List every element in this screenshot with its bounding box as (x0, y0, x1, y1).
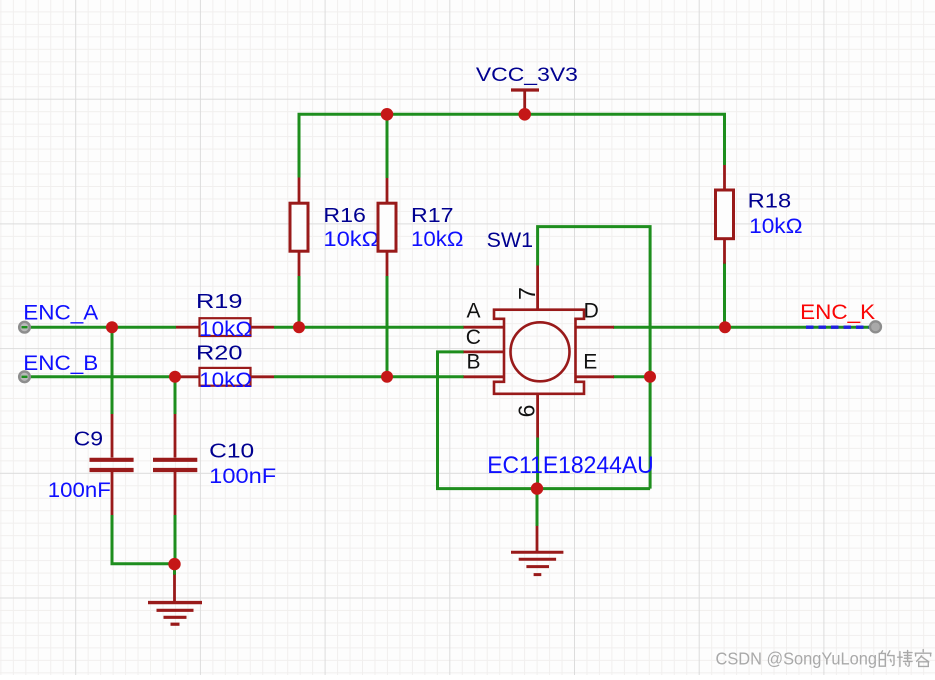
junction at R17 top (381, 108, 394, 121)
pin name E (583, 351, 597, 374)
switch SW1 rotary encoder body (494, 310, 584, 394)
port pin circle ENC_A (19, 322, 30, 333)
label R16 designator (323, 205, 366, 227)
svg-text:R18: R18 (748, 191, 792, 213)
port pin circle ENC_K (870, 321, 881, 332)
resistor R17 (378, 178, 396, 276)
label C10 designator (209, 441, 254, 463)
watermark CSDN (716, 649, 932, 669)
port pin circle ENC_B (19, 372, 30, 383)
wire bottom loop to pin C (438, 352, 651, 489)
wire ENC_K selection blue dashes (806, 326, 869, 329)
svg-text:10kΩ: 10kΩ (411, 228, 464, 251)
net label VCC_3V3 (476, 65, 578, 86)
SW1 pin D (576, 326, 615, 329)
ground GND2 under SW1 (511, 526, 563, 575)
svg-text:10kΩ: 10kΩ (749, 215, 803, 238)
wire pin D to ENC_K junction (613, 326, 725, 329)
wire R16 bottom leg (298, 276, 301, 327)
svg-text:C10: C10 (209, 441, 254, 463)
label C9 designator (74, 429, 104, 451)
svg-text:10kΩ: 10kΩ (199, 369, 252, 392)
svg-text:ENC_B: ENC_B (23, 352, 98, 375)
capacitor C10 (153, 414, 197, 515)
wire ENC_B left segment (28, 375, 176, 378)
SW1 pin 7 (top) (536, 266, 539, 310)
svg-text:7: 7 (514, 287, 540, 300)
label SW1 value EC11E18244AU (487, 452, 654, 479)
pin name B (467, 351, 481, 374)
SW1 pin B (464, 375, 505, 378)
label R20 designator (196, 342, 243, 364)
wire R17 bottom leg (386, 276, 389, 377)
wire pin 6 bottom leg (536, 438, 539, 489)
svg-text:SW1: SW1 (487, 229, 533, 252)
label R19 value 10kΩ (199, 318, 252, 341)
junction ENC_B / C10 (169, 371, 181, 383)
wire R18 bottom leg (723, 263, 726, 328)
wire top bus VCC from R16 top corner to R18 top corner (299, 114, 725, 177)
wire ground GND1 stub (173, 564, 176, 575)
svg-text:R17: R17 (411, 205, 454, 227)
svg-text:10kΩ: 10kΩ (199, 318, 252, 341)
capacitor C9 (90, 414, 134, 515)
net label ENC_K (highlighted red) (800, 301, 875, 324)
svg-text:C9: C9 (74, 429, 104, 451)
svg-text:100nF: 100nF (48, 479, 111, 502)
junction pin6 / bottom loop (531, 482, 543, 494)
wire C10 bottom leg (174, 515, 177, 564)
wire ENC_K right segment (725, 326, 870, 329)
label C10 value 100nF (209, 465, 276, 488)
svg-text:R20: R20 (196, 342, 243, 364)
pin number 6 (514, 405, 540, 418)
wire C9 bottom leg to ground node (112, 515, 175, 564)
svg-text:R19: R19 (196, 291, 243, 313)
SW1 pin C (464, 350, 505, 353)
SW1 pin E (576, 375, 615, 378)
junction R19 / R16 (293, 321, 305, 333)
junction C9 C10 ground node (168, 558, 180, 570)
wire C9 top leg (111, 327, 114, 414)
label R19 designator (196, 291, 243, 313)
label R18 designator (748, 191, 792, 213)
svg-text:A: A (467, 299, 481, 322)
label R20 value 10kΩ (199, 369, 252, 392)
resistor R19 (176, 318, 274, 336)
svg-text:EC11E18244AU: EC11E18244AU (487, 452, 654, 479)
wire SW1 pin7 loop to right side (538, 227, 651, 489)
svg-text:B: B (467, 351, 481, 374)
label C9 value 100nF (48, 479, 111, 502)
svg-text:R16: R16 (323, 205, 366, 227)
svg-text:CSDN @SongYuLong: CSDN @SongYuLong (716, 649, 878, 669)
label R17 designator (411, 205, 454, 227)
svg-text:C: C (466, 326, 481, 349)
svg-text:D: D (584, 299, 599, 322)
SW1 pin 6 (bottom) (536, 394, 539, 438)
svg-text:VCC_3V3: VCC_3V3 (476, 65, 578, 86)
svg-text:ENC_K: ENC_K (800, 301, 875, 324)
pin number 7 (514, 287, 540, 300)
svg-text:100nF: 100nF (209, 465, 276, 488)
svg-text:E: E (583, 351, 597, 374)
power symbol VCC_3V3 bar (511, 90, 539, 112)
svg-text:6: 6 (514, 405, 540, 418)
junction pin E / loop (644, 371, 656, 383)
wire R17 top leg (386, 114, 389, 178)
junction ENC_K / R18 (719, 321, 731, 333)
pin name C (466, 326, 481, 349)
wire ground GND2 stub (536, 489, 539, 526)
resistor R20 (176, 368, 274, 386)
net label ENC_A (23, 301, 98, 324)
net label ENC_B (23, 352, 98, 375)
label R17 value 10kΩ (411, 228, 464, 251)
label SW1 designator (487, 229, 533, 252)
junction at VCC (518, 108, 531, 121)
junction ENC_A / C9 (106, 321, 118, 333)
wire pin E to loop junction (613, 375, 650, 378)
svg-text:ENC_A: ENC_A (23, 301, 98, 324)
pin name D (584, 299, 599, 322)
resistor R16 (290, 178, 308, 277)
wire ENC_A middle segment to pin A (274, 326, 464, 329)
SW1 pin A (464, 326, 505, 329)
wire ENC_B middle segment to pin B (274, 375, 464, 378)
ground GND1 under C9 C10 (148, 575, 202, 625)
svg-text:10kΩ: 10kΩ (323, 228, 379, 251)
wire ENC_A left segment (28, 326, 176, 329)
label R18 value 10kΩ (749, 215, 803, 238)
wire C10 top leg (174, 377, 177, 414)
resistor R18 (716, 165, 734, 264)
label R16 value 10kΩ (323, 228, 379, 251)
junction R20 / R17 (381, 371, 393, 383)
pin name A (467, 299, 481, 322)
